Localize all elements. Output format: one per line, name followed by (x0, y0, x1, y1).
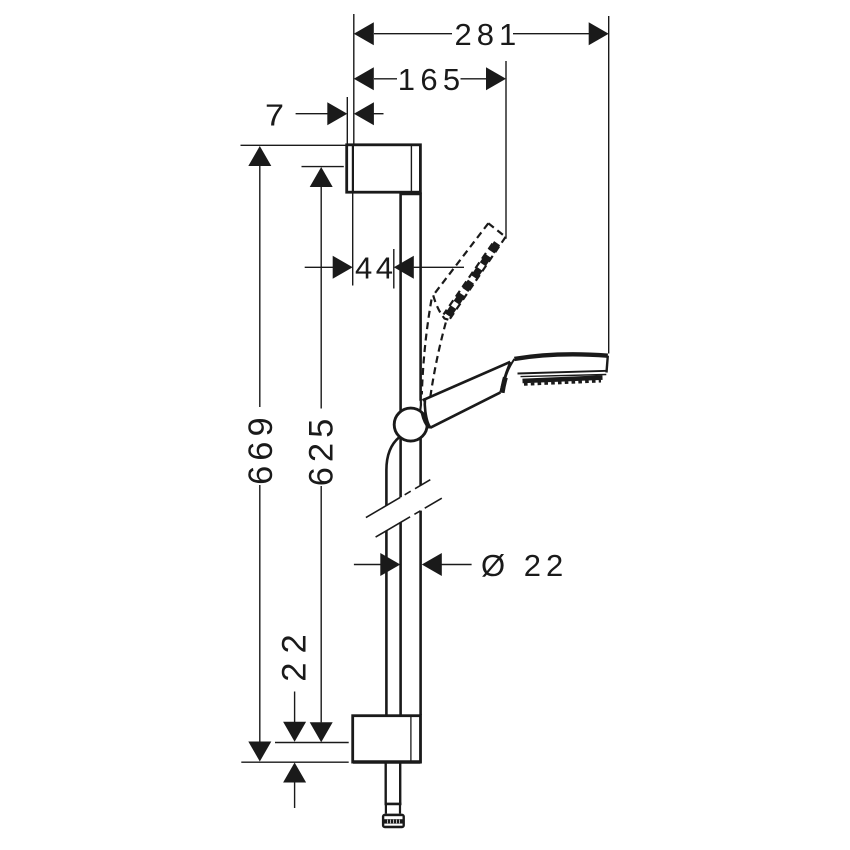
wire 669 bottom extension line (241, 761, 348, 763)
svg-text:Ø 22: Ø 22 (481, 548, 568, 583)
node arrow 7 left (327, 102, 347, 125)
head right edge (607, 356, 608, 373)
node arrow 22 up (283, 763, 306, 783)
wire 7 dim tails (296, 113, 328, 115)
wire 669 dim line (259, 166, 261, 408)
svg-text:669: 669 (242, 412, 280, 485)
handle upper edge (423, 362, 511, 400)
wire rail left edge (399, 193, 402, 412)
handle left tip edge (425, 398, 431, 428)
handle lower edge (430, 392, 500, 427)
svg-text:44: 44 (355, 251, 396, 286)
wire 22 upper dim line (294, 692, 296, 723)
svg-text:281: 281 (455, 17, 522, 52)
neck left line (rail end curving into circle edge) (419, 400, 422, 411)
wire 625 top extension line (302, 166, 344, 168)
node arrow dia22 left (380, 553, 400, 576)
wire rail right edge (419, 193, 422, 401)
wire extension line right of 281 (608, 16, 610, 354)
node arrow 281 left (354, 22, 374, 45)
head rim bottom line (518, 371, 608, 374)
wire extension line right of 165 (505, 61, 507, 239)
junction dark crescent (423, 413, 430, 428)
wire dia22 dim tails (354, 564, 381, 566)
wire extension line left of 7 (346, 97, 348, 145)
wire 625 bottom extension line (275, 742, 349, 744)
heavy dashed face band (448, 243, 497, 315)
node arrow 44 right (394, 256, 414, 279)
wire 44 dim tails (305, 266, 333, 268)
hose end nut (382, 814, 405, 829)
wire extension line left of 281/165 (353, 14, 355, 145)
head left edge / collar right line (505, 359, 514, 380)
wire 669 top extension line (241, 144, 346, 146)
hose ring (385, 803, 402, 806)
node arrow 44 left (333, 256, 353, 279)
svg-text:22: 22 (275, 625, 313, 681)
node arrow 165 right (486, 67, 506, 90)
node arrow 625 down (310, 722, 333, 742)
wire 281 dim line (374, 33, 452, 35)
wire extension line right of 44 (393, 249, 395, 289)
spray band (523, 378, 603, 381)
node arrow 7 right (354, 102, 374, 125)
wire 165 dim line (374, 78, 397, 80)
wire 625 dim line (320, 187, 322, 409)
head white body (514, 354, 607, 376)
svg-text:7: 7 (265, 98, 284, 133)
node arrow 22 down (283, 722, 306, 742)
node arrow dia22 right (422, 553, 442, 576)
wire extension line left of 44 (352, 193, 354, 286)
wire 22 lower dim line (294, 783, 296, 809)
handle body white fill (424, 359, 521, 428)
svg-text:625: 625 (302, 414, 340, 487)
node arrow 669 down (248, 742, 271, 762)
node arrow 625 up (310, 167, 333, 187)
svg-text:165: 165 (398, 62, 466, 97)
head top rim (514, 354, 607, 359)
node arrow 281 right (589, 22, 609, 45)
collar crescent (502, 378, 505, 393)
node arrow 165 left (354, 67, 374, 90)
collar left line (handle end) (500, 362, 510, 392)
head second line (521, 375, 607, 377)
node arrow 669 up (248, 146, 271, 166)
rail top end cap (401, 192, 420, 195)
